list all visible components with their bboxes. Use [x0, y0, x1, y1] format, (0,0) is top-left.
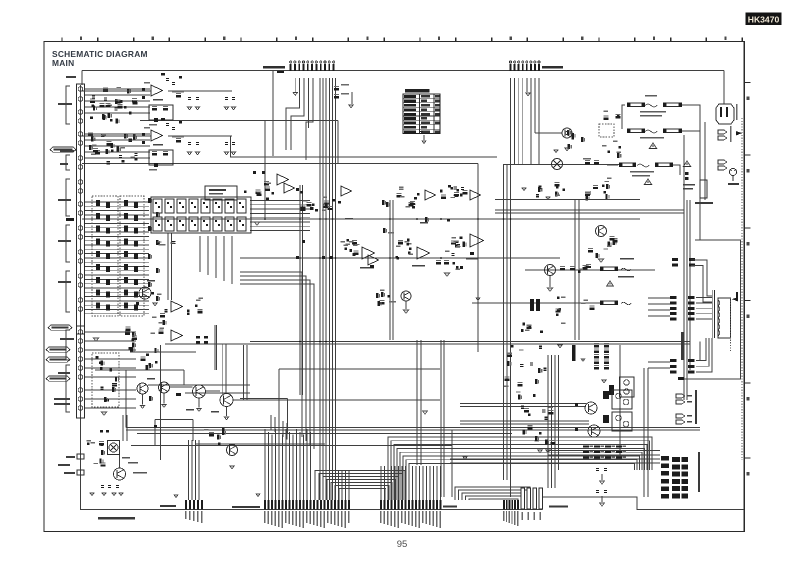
ground ground GND26 [230, 466, 234, 469]
component blob part P96 [242, 224, 244, 226]
inductor block L2 box B25 [612, 412, 632, 431]
capacitor capacitor C8 [119, 155, 122, 158]
emitter resistor part P278 [616, 451, 622, 453]
value label label TXT37 [209, 193, 223, 195]
resistor resistor R116 [612, 240, 616, 245]
ground ground GND28 [554, 150, 558, 153]
component blob part P85 [215, 202, 217, 204]
resistor resistor R48 [152, 151, 157, 155]
component blob part P63 [142, 141, 145, 144]
ground ground GND14 [254, 222, 259, 225]
connector pin CN9-16 part P185 [317, 500, 319, 510]
value label label TXT29 [144, 127, 150, 128]
value label label TXT190 [623, 446, 627, 448]
connector label part P1 [277, 71, 284, 73]
wire V x171 [171, 233, 173, 300]
switch block RLY1 [599, 124, 614, 137]
wire H y341 [250, 341, 690, 343]
capacitor capacitor C2 [92, 95, 95, 98]
trans pin part P256 [670, 365, 677, 368]
connector pin CN10-10 part P204 [412, 500, 414, 510]
value label label TXT25 [144, 82, 150, 83]
speaker terminal part P299 [682, 486, 689, 491]
resistor resistor R124 [583, 265, 588, 269]
connector arrow SPK4 [676, 420, 685, 424]
switch contact part P27 [134, 240, 138, 246]
resistor R61b [604, 349, 609, 353]
RCA jack J12 [78, 211, 83, 216]
component blob part P160 [222, 428, 225, 431]
wire H y303 [472, 302, 600, 304]
capacitor capacitor C7 [134, 153, 137, 156]
wire matrix row 18 [84, 274, 149, 276]
switch block SW3 [92, 353, 119, 407]
warning symbol warning triangle WT4 [607, 281, 614, 286]
value label label TXT48 [344, 244, 349, 245]
switch contact part P42 [124, 290, 128, 296]
RCA jack J22 [78, 348, 83, 353]
value label label TXT111 [313, 511, 314, 525]
connector pin P2-6 [530, 61, 532, 71]
component blob part P90 [230, 206, 232, 208]
value label label TXT51 [407, 243, 412, 244]
connector pin CN9-14 part P183 [310, 500, 312, 510]
wire V x216 [216, 325, 218, 370]
value label label TXT47 [346, 244, 351, 245]
value label label TXT139 [440, 511, 441, 528]
value label label TXT197 [612, 457, 616, 459]
wire front riser base [534, 78, 536, 133]
resistor resistor R138 [545, 439, 549, 444]
component blob part P5 [120, 100, 123, 103]
resistor resistor R22 [106, 141, 111, 145]
resistor resistor R130 [507, 353, 512, 357]
wire H y459 [450, 458, 660, 460]
component blob part P150 [128, 347, 131, 350]
wire V x644 [643, 368, 645, 497]
connector pin CN9-1 part P170 [264, 500, 266, 510]
resistor resistor R16 [89, 145, 93, 150]
wire trans link 3 [696, 307, 712, 309]
value label label TXT150 [645, 95, 657, 96]
component blob part P52 [109, 369, 112, 372]
switch contact part P44 [96, 302, 100, 308]
resistor resistor R1 [103, 88, 108, 92]
arrow arrow A3 [256, 494, 260, 497]
ground ground GND30 [546, 197, 550, 200]
resistor resistor R46 [163, 106, 168, 110]
jumper wavy2 [645, 130, 657, 133]
wire matrix row 8 [84, 231, 149, 233]
component blob part P233 [557, 297, 560, 300]
switch cell box B16 [213, 217, 222, 231]
wire V x126 [125, 370, 127, 428]
trans pin part P257 [688, 365, 695, 368]
node junction N5 [332, 218, 334, 220]
value label label TXT49 [341, 241, 346, 242]
trans pin part P248 [670, 307, 677, 310]
capacitor capacitor C32 [101, 485, 104, 488]
resistor resistor R43 [130, 347, 134, 352]
transistor Q21 [137, 383, 148, 394]
component blob part P163 [106, 430, 109, 433]
wire trans stub W1 [648, 297, 670, 299]
op-amp U41 [362, 247, 375, 259]
connector pin CN10-1 part P195 [380, 500, 382, 510]
resistor resistor R3 [90, 99, 95, 103]
wire matrix row 17 [84, 270, 149, 272]
component blob part P53 [132, 339, 135, 342]
value label label TXT69 [380, 290, 385, 291]
wire H y419 [155, 419, 193, 421]
value label label TXT134 [422, 511, 423, 523]
border frame [44, 41, 744, 531]
transistor Q52 [545, 265, 556, 276]
wire wire W11 [226, 407, 228, 417]
connector pin P2-8 [538, 61, 540, 71]
resistor resistor R20 [95, 150, 100, 154]
wire matrix row 19 [84, 278, 149, 280]
component blob part P122 [409, 247, 412, 250]
switch contact part P47 [134, 304, 138, 310]
wire V x168 [167, 233, 169, 300]
value label label TXT26 [153, 99, 163, 100]
trans pin part P245 [688, 296, 695, 299]
switch contact part P40 [96, 290, 100, 296]
value label label TXT189 [612, 446, 616, 448]
resistor resistor R126 [589, 306, 594, 310]
wire trans link 1 [696, 297, 712, 299]
wire V x273 [272, 71, 274, 157]
value label label TXT122 [380, 511, 381, 523]
wire V x390 [389, 200, 391, 340]
RCA jack J27 [78, 397, 83, 402]
emitter resistor part P281 [605, 457, 611, 459]
feedback network box B4 [149, 150, 173, 165]
value label label TXT192 [601, 451, 605, 453]
resistor resistor R133 [505, 377, 510, 381]
wire ps link5 [673, 165, 680, 175]
value label label TXT188 [601, 446, 605, 448]
resistor resistor R121 [596, 253, 600, 258]
switch contact part P45 [106, 304, 110, 310]
wire trans loop [679, 240, 741, 379]
wire trans drop [699, 342, 701, 361]
component blob part P78 [194, 206, 196, 208]
wire pin riser A7 [288, 432, 290, 500]
component blob part P109 [330, 256, 333, 259]
value label label TXT86 [86, 440, 91, 441]
RCA jack J16 [78, 259, 83, 264]
speaker terminal part P296 [682, 464, 689, 469]
component blob part P56 [179, 76, 182, 79]
component blob part P8 [124, 106, 127, 109]
wire pin riser A9 [295, 429, 297, 500]
value label label TXT187 [590, 446, 594, 448]
wire stub wire SM9 [84, 407, 136, 409]
component blob part P221 [608, 151, 611, 154]
component blob part P136 [412, 206, 415, 209]
switch block SW1 [92, 196, 118, 316]
resistor resistor R80 [380, 300, 385, 304]
wire matrix row 16 [84, 266, 149, 268]
wire bracket BR2 [66, 155, 70, 170]
wire H y157 [230, 156, 497, 158]
component blob part P114 [456, 189, 459, 192]
component blob part P4 [90, 117, 93, 120]
warning symbol warning triangle WT3 [683, 161, 690, 166]
resistor resistor R89 [154, 348, 158, 353]
connector pin CN9-8 part P177 [289, 500, 291, 510]
wire bracket BR4 [66, 225, 70, 262]
switch contact part P32 [96, 264, 100, 270]
wire matrix row 5 [84, 218, 149, 220]
RCA jack J4 [78, 119, 83, 124]
capacitor capacitor C31 [164, 309, 167, 312]
wire wire W18 [601, 474, 603, 480]
wire stub wire SW3 [84, 100, 150, 102]
value label label TXT64 [453, 240, 458, 241]
resistor resistor R7 [115, 99, 119, 104]
fuse F5 [619, 163, 636, 167]
value label label TXT116 [331, 511, 332, 524]
component blob part P149 [130, 349, 133, 352]
wire V x503 [503, 165, 505, 480]
switch cell box B9 [177, 199, 186, 213]
component blob part P227 [562, 188, 565, 191]
wire V x230 [230, 136, 232, 157]
value label label TXT123 [384, 511, 385, 524]
wire wire W6 [423, 135, 425, 140]
resistor resistor R78 [441, 195, 446, 199]
value label label TXT155 [632, 175, 650, 176]
connector pin CN9-23 part P192 [341, 500, 343, 510]
wire wire W4 [82, 90, 151, 92]
wire matrix row 20 [84, 283, 149, 285]
wire bracket BR7 [66, 365, 70, 412]
wire matrix out row 1 [250, 200, 310, 202]
switch contact part P20 [96, 226, 100, 232]
capacitor capacitor C4 [107, 161, 110, 164]
component blob part P157 [176, 393, 181, 396]
resistor R60a [594, 343, 599, 347]
component blob part P88 [218, 224, 220, 226]
connector outline box B2 [77, 326, 85, 418]
wire cn8 riser 3 [195, 440, 197, 500]
resistor resistor R72 [301, 204, 306, 208]
wire trans stub W5 [648, 361, 670, 363]
wire harness U 6 [335, 486, 389, 501]
switch contact part P41 [106, 292, 110, 298]
value label label TXT97 [264, 511, 265, 523]
RCA jack J9 [78, 180, 83, 185]
resistor resistor R52 [256, 189, 261, 193]
label TO AMP BD 2 [549, 506, 568, 508]
arrow arrow A4 [476, 298, 480, 301]
wire cn8 riser 4 [198, 440, 200, 500]
connector arrow SPK1 [676, 394, 685, 398]
component blob part P267 [528, 414, 531, 417]
value label label TXT194 [623, 451, 627, 453]
resistor resistor R115 [586, 196, 590, 201]
relay RL2 [700, 180, 707, 198]
connector pin P1-4 [302, 61, 304, 71]
wire center bus V2 [322, 78, 324, 500]
component blob part P67 [155, 220, 157, 222]
wire harness U 4 [327, 480, 395, 501]
node junction N1 [264, 218, 266, 220]
capacitor capacitor C46 [604, 468, 607, 471]
component blob part P121 [406, 243, 409, 246]
value label label TXT159 [617, 151, 622, 152]
value label label TXT12 [54, 403, 70, 405]
resistor resistor R62 [410, 201, 415, 205]
resistor resistor R66 [398, 240, 403, 244]
value label label TXT66 [456, 246, 461, 247]
connector pin CN10-7 part P201 [401, 500, 403, 510]
resistor resistor R28 [156, 212, 160, 217]
wire left drop 3 [278, 419, 280, 435]
wire pin riser A4 [278, 432, 280, 500]
regulator body part P230 [530, 299, 534, 311]
connector pin CN10-18 part P212 [440, 500, 442, 510]
inductor L2b [623, 421, 629, 427]
connector pin CN10-11 part P205 [415, 500, 417, 510]
fuse F8 [600, 301, 618, 305]
resistor resistor R84 [162, 320, 166, 325]
arrow right [736, 131, 742, 135]
switch contact part P12 [96, 200, 100, 206]
value label label TXT19 [92, 145, 97, 146]
wire V x243 [243, 345, 245, 400]
connector pin CN10-6 part P200 [398, 500, 400, 510]
wire harness U 3 [323, 477, 399, 501]
switch contact part P46 [124, 302, 128, 308]
component blob part P110 [332, 199, 335, 202]
resistor resistor R5 [127, 89, 131, 94]
ground ground GND33 [558, 345, 562, 348]
capacitor capacitor C9 [114, 383, 117, 386]
wire stub wire SW2 [84, 94, 150, 96]
value label label TXT158 [602, 145, 607, 146]
value label label TXT16 [108, 105, 113, 106]
component blob part P222 [602, 184, 605, 187]
component blob part P270 [575, 428, 578, 431]
wire cn8 riser 2 [191, 440, 193, 500]
RCA jack J2 [78, 97, 83, 102]
wire cn8 riser 1 [188, 440, 190, 500]
capacitor capacitor C17 [232, 97, 235, 100]
wire matrix row 25 [84, 304, 149, 306]
transistor Q23 [139, 287, 151, 299]
connector pin CN9-15 part P184 [313, 500, 315, 510]
value label label TXT109 [306, 511, 307, 523]
value label label TXT108 [303, 511, 304, 528]
connector pin CN12-4 [539, 488, 542, 509]
op-amp U51 [470, 234, 484, 247]
value label label TXT23 [149, 124, 157, 125]
wire matrix row 7 [84, 227, 149, 229]
wire H y270 [525, 269, 655, 271]
switch contact part P29 [106, 253, 110, 259]
switch contact part P23 [134, 228, 138, 234]
value label label TXT103 [285, 511, 286, 523]
connector pin CN11-6 part P218 [517, 500, 519, 510]
wire stub wire SW1 [84, 88, 150, 90]
connector pin P1-5 [307, 61, 309, 71]
value label label TXT178 [687, 395, 692, 396]
value label label TXT137 [433, 511, 434, 526]
resistor resistor R118 [612, 238, 617, 242]
wire wire W8 [142, 394, 144, 405]
ground ground GND29 [522, 188, 526, 191]
wire trans feed 1 [691, 260, 712, 296]
capacitor capacitor C45 [596, 468, 599, 471]
value label label TXT56 [349, 241, 354, 242]
speaker terminal part P293 [672, 486, 680, 491]
wire matrix row 27 [84, 313, 149, 315]
resistor resistor R76 [454, 192, 459, 196]
jack output [77, 470, 84, 475]
value label label TXT146 [522, 512, 523, 520]
emitter resistor part P274 [616, 446, 622, 448]
wire H y424 drive [460, 423, 589, 425]
component blob part P158 [87, 442, 90, 445]
node junction N2 [299, 218, 301, 220]
resistor resistor R33 [148, 282, 152, 287]
node junction N12 [299, 257, 301, 259]
op-amp U62 [171, 330, 183, 341]
ground ground GND6 [187, 107, 191, 110]
wire stub wire SW7 [84, 139, 150, 141]
wire V x193 [192, 420, 194, 442]
component blob part P105 [315, 209, 318, 212]
resistor R301 [334, 86, 339, 90]
value label label TXT84 [90, 442, 95, 443]
node junction N10 [503, 218, 505, 220]
component blob part P219 [617, 115, 620, 118]
inductor L2a [616, 415, 622, 421]
connector pin P2-4 [522, 61, 524, 71]
component blob part P155 [196, 341, 200, 344]
component blob part P159 [100, 443, 103, 446]
wire pin riser A24 [348, 470, 350, 500]
wire front riser V1 [510, 78, 512, 164]
connector pin CN10-13 part P207 [422, 500, 424, 510]
ground ground GND34 [581, 359, 585, 361]
wire stub wire SM3 [84, 349, 136, 351]
connector pin CN8-5 part P169 [201, 500, 203, 510]
resistor resistor R36 [115, 376, 119, 381]
component blob part P164 [154, 425, 157, 428]
wire center bus V6 [335, 78, 337, 500]
value label label TXT74 [152, 317, 157, 318]
speaker terminal part P298 [682, 479, 689, 484]
wire center bus V5 [332, 78, 334, 500]
value label label TXT101 [278, 511, 279, 527]
RCA jack J28 [78, 406, 83, 411]
wire matrix row 12 [84, 248, 149, 250]
trans pin part P253 [688, 318, 695, 321]
resistor resistor R68 [444, 260, 449, 264]
node junction N13 [319, 257, 321, 259]
terminal label part P2 [66, 218, 74, 221]
value label label TXT45 [451, 197, 456, 198]
emitter resistor part P271 [583, 446, 589, 448]
value label label TXT183 [516, 391, 521, 392]
wire H y430 [126, 429, 700, 431]
capacitor capacitor C16 [225, 97, 228, 100]
